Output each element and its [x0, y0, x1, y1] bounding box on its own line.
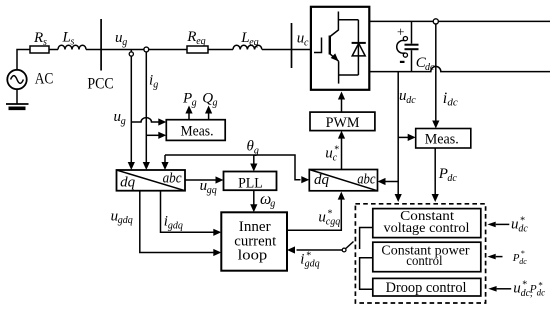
- svg-text:eq: eq: [249, 37, 258, 48]
- svg-text:dq: dq: [314, 172, 330, 188]
- svg-text:u: u: [511, 217, 519, 233]
- svg-text:u: u: [318, 210, 326, 226]
- svg-text:*: *: [521, 249, 525, 258]
- svg-text:*: *: [520, 216, 525, 227]
- svg-text:AC: AC: [35, 71, 54, 88]
- svg-text:L: L: [240, 30, 249, 46]
- svg-text:P: P: [529, 283, 537, 295]
- svg-text:Droop control: Droop control: [386, 280, 467, 296]
- svg-text:R: R: [33, 30, 43, 46]
- svg-text:loop: loop: [238, 247, 267, 263]
- svg-text:abc: abc: [357, 172, 376, 188]
- svg-text:*: *: [522, 279, 527, 290]
- svg-text:g: g: [254, 145, 259, 156]
- svg-text:*: *: [306, 251, 311, 262]
- svg-text:dq: dq: [120, 175, 136, 191]
- svg-text:PLL: PLL: [238, 175, 263, 191]
- svg-text:Meas.: Meas.: [181, 124, 214, 140]
- svg-text:s: s: [71, 36, 75, 47]
- svg-text:dc: dc: [519, 257, 527, 266]
- svg-text:gdq: gdq: [118, 215, 133, 226]
- svg-text:Meas.: Meas.: [425, 132, 459, 148]
- svg-text:dc: dc: [406, 95, 416, 106]
- svg-text:*: *: [327, 209, 332, 220]
- svg-text:PCC: PCC: [87, 76, 113, 93]
- svg-text:control: control: [406, 254, 442, 269]
- svg-text:R: R: [186, 29, 196, 45]
- svg-text:g: g: [270, 199, 275, 210]
- svg-text:s: s: [43, 37, 47, 48]
- svg-text:gq: gq: [207, 185, 217, 196]
- svg-text:L: L: [62, 30, 71, 46]
- svg-text:dc: dc: [447, 97, 458, 109]
- svg-text:+: +: [397, 25, 405, 40]
- svg-text:gdq: gdq: [168, 220, 183, 231]
- svg-text:Inner: Inner: [239, 219, 271, 235]
- svg-text:c: c: [304, 37, 309, 48]
- svg-text:dc: dc: [425, 62, 435, 73]
- svg-text:dc: dc: [447, 173, 457, 184]
- svg-text:g: g: [153, 79, 158, 90]
- svg-text:*: *: [538, 281, 543, 291]
- svg-text:PWM: PWM: [326, 115, 360, 131]
- svg-text:g: g: [122, 37, 127, 48]
- svg-text:g: g: [121, 116, 126, 127]
- svg-text:*: *: [334, 145, 339, 156]
- svg-text:g: g: [192, 97, 197, 108]
- svg-text:g: g: [213, 97, 218, 108]
- svg-text:voltage control: voltage control: [384, 221, 470, 236]
- svg-text:abc: abc: [163, 171, 182, 187]
- svg-text:eq: eq: [196, 36, 205, 47]
- svg-text:u: u: [325, 146, 333, 162]
